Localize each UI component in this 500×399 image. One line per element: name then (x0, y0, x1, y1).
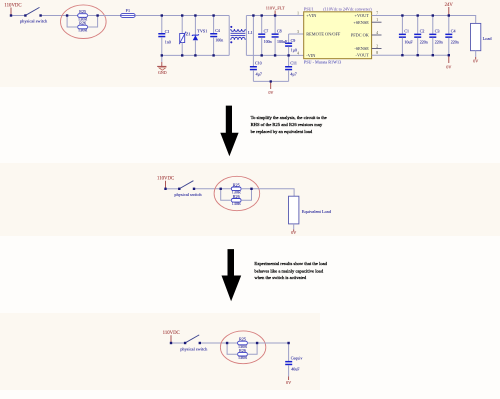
earth rail and 0V (input side) (253, 80, 288, 95)
switch (middle) physical switch (174, 181, 202, 197)
svg-text:1n0: 1n0 (165, 40, 171, 45)
resistor R25 (top) (78, 9, 88, 21)
pin 2 -SENSE stub (372, 48, 382, 50)
svg-text:C11: C11 (290, 61, 297, 66)
svg-text:1µ0: 1µ0 (291, 48, 297, 53)
annotation text 2 (254, 261, 327, 280)
svg-text:C2: C2 (420, 29, 425, 34)
svg-text:8: 8 (376, 51, 378, 55)
svg-text:R26: R26 (239, 348, 246, 353)
capacitor C11 4u7 (Y-cap) (285, 55, 297, 81)
svg-text:2: 2 (376, 44, 378, 48)
power 110VDC (middle) (157, 177, 174, 189)
resistor R25 (bottom) (238, 337, 248, 349)
svg-text:110V_FLT: 110V_FLT (266, 6, 285, 11)
power 110VDC (top circuit) (4, 3, 21, 15)
junction dots (bottom circuit) (170, 342, 290, 344)
TVS diode TVS1 (192, 16, 207, 56)
svg-text:C4: C4 (451, 29, 456, 34)
power 0V (below C4) (446, 55, 451, 69)
svg-text:L1: L1 (248, 30, 253, 35)
capacitor C1 10uF (output) (399, 16, 414, 56)
svg-text:R25: R25 (239, 337, 246, 342)
svg-text:physical switch: physical switch (180, 346, 208, 351)
capacitor C4 100n (input) (210, 16, 223, 56)
svg-text:TVS1: TVS1 (197, 29, 207, 34)
svg-text:0V: 0V (446, 64, 451, 69)
svg-text:R25: R25 (233, 182, 240, 187)
top rail choke to PSU (246, 15, 303, 17)
capacitor C7 100n (258, 16, 271, 56)
svg-text:C3: C3 (435, 29, 440, 34)
resistor R26 (middle) (231, 194, 241, 206)
capacitor C8 100uF (272, 16, 288, 56)
svg-text:Experimental results show that: Experimental results show that the load (254, 261, 327, 266)
svg-text:C10: C10 (255, 61, 262, 66)
svg-text:C9: C9 (291, 38, 296, 43)
svg-text:4: 4 (297, 51, 299, 55)
svg-text:40uF: 40uF (291, 366, 300, 371)
highlight ellipse (top) (61, 5, 107, 39)
svg-text:C4: C4 (215, 28, 220, 33)
svg-text:+VIN: +VIN (306, 13, 316, 18)
svg-text:be replaced by an equivalent l: be replaced by an equivalent load (251, 129, 313, 134)
svg-text:physical switch: physical switch (20, 19, 48, 24)
svg-text:when the switch is activated: when the switch is activated (254, 275, 306, 280)
pin 1 +SENSE stub (372, 21, 382, 23)
svg-text:130R: 130R (238, 355, 247, 360)
capacitor C4 220n (output) (445, 16, 459, 56)
wire: R pair to fuse (88, 15, 121, 17)
wire: 110VDC node to switch (11, 15, 25, 17)
bottom rail choke to PSU (246, 54, 303, 56)
wire: R26 branch (top) (67, 16, 78, 28)
-VOUT rail (372, 54, 449, 56)
power 0V (below Load) (473, 57, 478, 64)
svg-text:F1: F1 (126, 8, 130, 13)
svg-text:1: 1 (376, 18, 378, 22)
varistor Z1 (179, 16, 190, 56)
load resistor Load (471, 23, 493, 57)
ground GND (157, 55, 167, 75)
junction dots (top circuit) (10, 14, 450, 56)
svg-text:0V: 0V (268, 90, 273, 95)
wire: R26 branch (middle) (221, 189, 232, 201)
bottom rail (left of choke) (162, 54, 229, 56)
capacitor C2 220n (414, 16, 428, 56)
power 24V (445, 3, 454, 15)
power 110VDC (bottom) (163, 331, 180, 343)
svg-text:1: 1 (297, 11, 299, 15)
wire: fuse to choke, top rail (135, 15, 229, 17)
svg-text:PSU - Murata R1W13: PSU - Murata R1W13 (304, 60, 341, 65)
svg-text:-VIN: -VIN (306, 53, 315, 58)
svg-text:7: 7 (376, 11, 378, 15)
svg-text:+VOUT: +VOUT (355, 13, 370, 18)
svg-text:REMOTE ON/OFF: REMOTE ON/OFF (306, 32, 341, 37)
capacitor C1 1n0 (input) (158, 16, 170, 56)
svg-text:4: 4 (376, 31, 378, 35)
svg-text:0V: 0V (291, 230, 296, 235)
svg-text:0V: 0V (473, 59, 478, 64)
wire to Cequiv (247, 342, 288, 344)
highlight ellipse (middle) (214, 176, 260, 210)
svg-text:behaves like a mainly capaciti: behaves like a mainly capacitive load (254, 268, 323, 273)
svg-text:C7: C7 (264, 28, 269, 33)
svg-text:130R: 130R (78, 28, 87, 33)
svg-text:Z1: Z1 (186, 32, 191, 37)
svg-text:PFDC OK: PFDC OK (351, 33, 370, 38)
wire (194, 188, 231, 190)
svg-text:C1: C1 (404, 29, 409, 34)
svg-text:C1: C1 (165, 29, 170, 34)
wire (200, 342, 238, 344)
svg-text:4µ7: 4µ7 (290, 71, 296, 76)
svg-text:GND: GND (158, 70, 167, 75)
capacitor C9 1u0 (remote) (285, 34, 304, 55)
arrow down 2 (222, 249, 242, 301)
svg-text:4µ7: 4µ7 (256, 71, 262, 76)
svg-text:10uF: 10uF (404, 39, 413, 44)
svg-text:130R: 130R (232, 201, 241, 206)
svg-text:C8: C8 (277, 28, 282, 33)
svg-text:110VDC: 110VDC (4, 3, 21, 8)
load resistor Equivalent Load (289, 196, 332, 229)
svg-text:Load: Load (483, 36, 493, 41)
svg-text:PSU1: PSU1 (304, 7, 314, 12)
wire: switch to R pair (41, 15, 78, 17)
svg-text:220n: 220n (435, 39, 443, 44)
fuse F1 (121, 8, 136, 17)
PSU U1 (Murata converter) (297, 7, 381, 65)
svg-text:220n: 220n (420, 39, 428, 44)
wire (171, 342, 185, 344)
resistor R26 (bottom) (238, 348, 248, 360)
svg-text:0V: 0V (286, 380, 291, 385)
svg-text:R26: R26 (233, 194, 240, 199)
power 0V (below Cequiv) (286, 377, 291, 385)
svg-text:220n: 220n (451, 39, 459, 44)
junction dots (middle circuit) (164, 188, 252, 190)
svg-text:Equivalent Load: Equivalent Load (302, 209, 332, 214)
svg-text:-VOUT: -VOUT (356, 53, 370, 58)
power 0V (below Equivalent Load) (291, 230, 296, 236)
resistor R26 (top) (78, 21, 88, 33)
capacitor C10 4u7 (Y-cap) (250, 16, 262, 82)
arrow down 1 (220, 106, 238, 157)
choke L1 (229, 16, 252, 56)
svg-text:RHS of the R25 and R26 resisto: RHS of the R25 and R26 resistors may (251, 122, 323, 127)
svg-text:physical switch: physical switch (174, 192, 202, 197)
switch S1 physical switch (20, 7, 48, 23)
svg-text:R26: R26 (79, 21, 86, 26)
switch (bottom) physical switch (180, 335, 208, 352)
resistor R25 (middle) (231, 182, 241, 194)
+VOUT rail (372, 16, 476, 24)
capacitor Cequiv 40uF (285, 343, 302, 377)
highlight ellipse (bottom) (220, 331, 265, 364)
capacitor C3 220n (429, 16, 443, 56)
annotation text 1 (251, 115, 327, 134)
svg-text:-SENSE: -SENSE (354, 46, 369, 51)
wire (166, 188, 180, 190)
wire: R26 branch (bottom) (227, 343, 238, 354)
svg-text:100n: 100n (264, 39, 272, 44)
svg-text:100n: 100n (215, 38, 223, 43)
pin 4 PFDC OK stub (372, 34, 382, 36)
svg-text:R25: R25 (79, 9, 86, 14)
svg-text:(110Vdc to 24Vdc converter): (110Vdc to 24Vdc converter) (323, 7, 372, 12)
net label 110V_FLT (266, 6, 285, 16)
wire to equivalent load (241, 189, 294, 196)
svg-text:Cequiv: Cequiv (291, 355, 303, 360)
svg-text:+SENSE: +SENSE (353, 20, 369, 25)
svg-text:3: 3 (297, 30, 299, 34)
